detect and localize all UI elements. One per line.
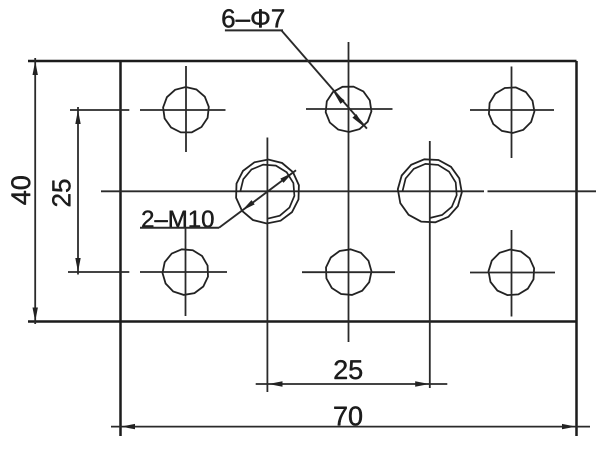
- label 2-M10 leader diagonal with arrows: [219, 170, 296, 228]
- label 2-M10 text: [142, 210, 213, 227]
- plate right edge (extended down for 70 dim): [575, 61, 578, 436]
- dimension 40 text: [11, 176, 30, 204]
- dimension 25 horizontal line with arrows: [256, 381, 448, 386]
- hole bottom-middle (small hole, 7mm): [302, 249, 395, 295]
- hole bottom-right (small hole, 7mm): [470, 230, 555, 317]
- label 6-Phi7 text: [222, 9, 283, 27]
- label 6-Phi7 leader diagonal with arrows: [281, 30, 367, 128]
- plate bottom edge (with left extension for 40 dim): [28, 320, 577, 323]
- hole top-left (small hole, 7mm): [163, 66, 209, 152]
- plate left edge (extended down for 70 dim): [119, 61, 122, 436]
- plate top edge (with left extension for 40 dim): [28, 60, 577, 63]
- dimension 25 vertical line with arrows: [75, 107, 80, 275]
- hole top-middle (small hole, 7mm): [306, 87, 393, 132]
- label 6-Phi7 leader underline: [225, 29, 283, 31]
- label 2-M10 leader underline: [140, 227, 219, 229]
- hole left tapped M10 (double circle): [236, 138, 299, 393]
- hole right tapped M10 (double circle): [398, 141, 462, 388]
- dimension 70 line with arrows: [111, 424, 590, 429]
- dimension 40 line with arrows: [33, 58, 38, 324]
- center column vertical centerline: [348, 42, 350, 342]
- dimension 25 horizontal text: [335, 360, 363, 379]
- dimension 25 vertical text: [52, 180, 70, 207]
- wire: bottom-left hole horizontal centerline with extension to 25-dim: [68, 271, 129, 273]
- middle row horizontal centerline: [101, 190, 484, 192]
- wire: top-left hole horizontal centerline with extension to 25-dim: [70, 109, 129, 111]
- hole top-right (small hole, 7mm): [470, 67, 554, 159]
- dimension 70 text: [334, 406, 362, 425]
- hole bottom-left (small hole, 7mm): [163, 228, 209, 316]
